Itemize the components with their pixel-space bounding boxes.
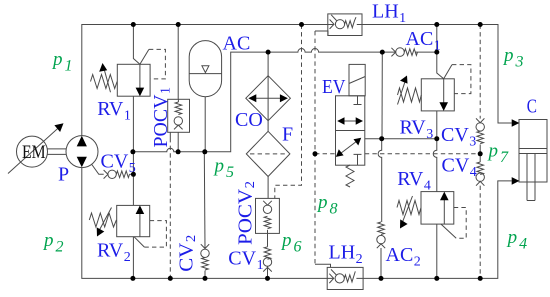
svg-text:RV1: RV1 — [97, 98, 131, 124]
svg-text:p2: p2 — [42, 230, 64, 256]
svg-text:POCV2: POCV2 — [235, 181, 259, 245]
svg-text:p7: p7 — [487, 141, 510, 167]
svg-text:p8: p8 — [316, 192, 338, 218]
svg-text:LH1: LH1 — [372, 1, 406, 27]
svg-text:EM: EM — [22, 142, 46, 163]
svg-text:LH2: LH2 — [329, 242, 363, 268]
svg-text:C: C — [527, 95, 537, 117]
svg-text:AC1: AC1 — [406, 28, 441, 54]
svg-text:CV5: CV5 — [101, 150, 136, 176]
svg-text:CV2: CV2 — [176, 235, 200, 272]
svg-text:CO: CO — [235, 109, 263, 131]
svg-text:EV: EV — [322, 76, 346, 98]
svg-text:CV1: CV1 — [228, 248, 263, 274]
svg-text:p5: p5 — [213, 156, 235, 182]
svg-text:RV2: RV2 — [97, 240, 131, 266]
svg-text:p4: p4 — [506, 227, 527, 253]
svg-text:p1: p1 — [51, 49, 73, 75]
svg-text:CV3: CV3 — [441, 124, 476, 150]
svg-text:CV4: CV4 — [442, 154, 477, 180]
svg-text:p3: p3 — [502, 45, 524, 71]
svg-text:POCV1: POCV1 — [150, 87, 174, 148]
svg-text:F: F — [282, 124, 293, 146]
svg-text:P: P — [58, 164, 69, 186]
svg-text:RV4: RV4 — [397, 168, 431, 194]
svg-text:p6: p6 — [280, 230, 302, 256]
svg-text:RV3: RV3 — [400, 117, 434, 143]
svg-text:AC2: AC2 — [386, 244, 421, 270]
svg-text:AC: AC — [223, 32, 251, 54]
